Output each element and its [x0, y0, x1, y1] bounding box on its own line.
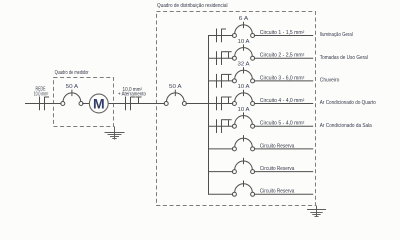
svg-text:Circuito 1 - 1,5 mm²: Circuito 1 - 1,5 mm²	[260, 30, 305, 36]
svg-text:50 A: 50 A	[66, 84, 79, 90]
svg-text:Circuito 2 - 2,5 mm²: Circuito 2 - 2,5 mm²	[260, 53, 305, 59]
svg-text:Ar Condicionado do Quarto: Ar Condicionado do Quarto	[320, 100, 376, 106]
svg-text:10 A: 10 A	[238, 39, 251, 45]
svg-text:10 A: 10 A	[238, 107, 251, 113]
svg-text:Quadro de medidor: Quadro de medidor	[55, 70, 89, 76]
svg-text:Circuito 5 - 4,0 mm²: Circuito 5 - 4,0 mm²	[260, 121, 305, 127]
svg-text:10 A: 10 A	[238, 84, 251, 90]
svg-text:6 A: 6 A	[239, 16, 249, 22]
svg-text:10,0 mm²: 10,0 mm²	[34, 91, 49, 97]
svg-text:Chuveiro: Chuveiro	[320, 78, 340, 84]
svg-text:Tomadas de Uso Geral: Tomadas de Uso Geral	[320, 55, 368, 61]
svg-text:M: M	[93, 95, 105, 111]
svg-text:32 A: 32 A	[238, 62, 251, 68]
svg-text:Circuito Reserva: Circuito Reserva	[260, 143, 295, 149]
svg-text:Circuito 4 - 4,0 mm²: Circuito 4 - 4,0 mm²	[260, 98, 305, 104]
svg-text:Iluminação Geral: Iluminação Geral	[320, 32, 353, 38]
svg-text:Ar Condicionado da Sala: Ar Condicionado da Sala	[320, 123, 372, 129]
svg-text:Circuito Reserva: Circuito Reserva	[260, 189, 295, 195]
svg-text:Circuito Reserva: Circuito Reserva	[260, 166, 295, 172]
svg-text:Quadro de distribuição residen: Quadro de distribuição residencial	[157, 3, 228, 9]
svg-text:Circuito 3 - 6,0 mm²: Circuito 3 - 6,0 mm²	[260, 75, 305, 81]
svg-text:50 A: 50 A	[169, 84, 182, 90]
svg-text:+ Aterramento: + Aterramento	[118, 91, 146, 97]
